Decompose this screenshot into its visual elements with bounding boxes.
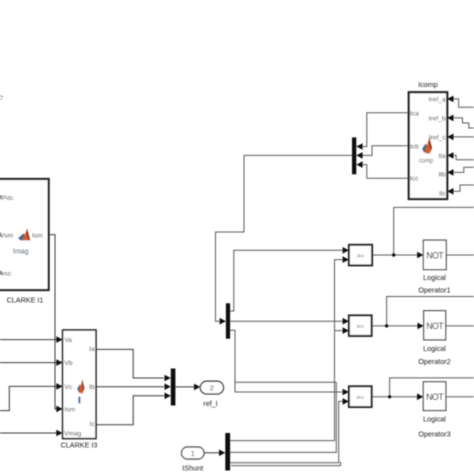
svg-text:IShunt: IShunt	[182, 464, 203, 473]
svg-text:esc: esc	[1, 271, 12, 278]
svg-text:Ica: Ica	[410, 110, 419, 117]
svg-text:Logical: Logical	[423, 415, 446, 424]
svg-text:Ism: Ism	[32, 233, 43, 240]
svg-text:CLARKE I3: CLARKE I3	[61, 441, 98, 450]
svg-text:Ism: Ism	[65, 407, 76, 414]
svg-text:Operator3: Operator3	[418, 430, 450, 439]
svg-text:Icb: Icb	[410, 143, 419, 150]
svg-text:comp: comp	[419, 159, 434, 165]
svg-text:Ib: Ib	[89, 384, 95, 391]
svg-text:>=: >=	[356, 394, 364, 401]
svg-text:NOT: NOT	[426, 392, 444, 402]
svg-text:NOT: NOT	[426, 321, 444, 331]
svg-text:Iref_c: Iref_c	[429, 134, 446, 141]
svg-text:Vsm: Vsm	[0, 233, 14, 240]
svg-text:Logical: Logical	[423, 273, 446, 282]
svg-text:Ilc: Ilc	[439, 190, 446, 197]
svg-text:Ic: Ic	[89, 421, 95, 428]
svg-text:Icomp: Icomp	[418, 80, 438, 89]
svg-text:NOT: NOT	[426, 250, 444, 260]
svg-text:ref_I: ref_I	[203, 399, 217, 408]
svg-text:Logical: Logical	[423, 344, 446, 353]
svg-text:Vc: Vc	[65, 384, 73, 391]
svg-text:Va: Va	[65, 337, 73, 344]
svg-text:Iref_b: Iref_b	[429, 115, 446, 122]
svg-text:Vmag: Vmag	[64, 431, 82, 438]
svg-text:Vb: Vb	[65, 360, 73, 367]
svg-text:>=: >=	[356, 323, 364, 330]
svg-text:>=: >=	[357, 253, 365, 260]
svg-text:CLARKE I1: CLARKE I1	[7, 296, 44, 305]
svg-text:Ilb: Ilb	[439, 172, 446, 179]
svg-text:Operator2: Operator2	[418, 357, 450, 366]
svg-text:Operator1: Operator1	[418, 286, 450, 295]
svg-text:1: 1	[191, 451, 195, 458]
svg-text:Icc: Icc	[410, 176, 419, 183]
svg-text:Ia: Ia	[89, 346, 95, 353]
svg-text:Pdc: Pdc	[2, 195, 14, 202]
svg-text:2: 2	[210, 384, 214, 393]
svg-text:Imag: Imag	[13, 249, 29, 256]
svg-text:Ila: Ila	[439, 153, 446, 160]
svg-text:Iref_a: Iref_a	[429, 96, 446, 103]
